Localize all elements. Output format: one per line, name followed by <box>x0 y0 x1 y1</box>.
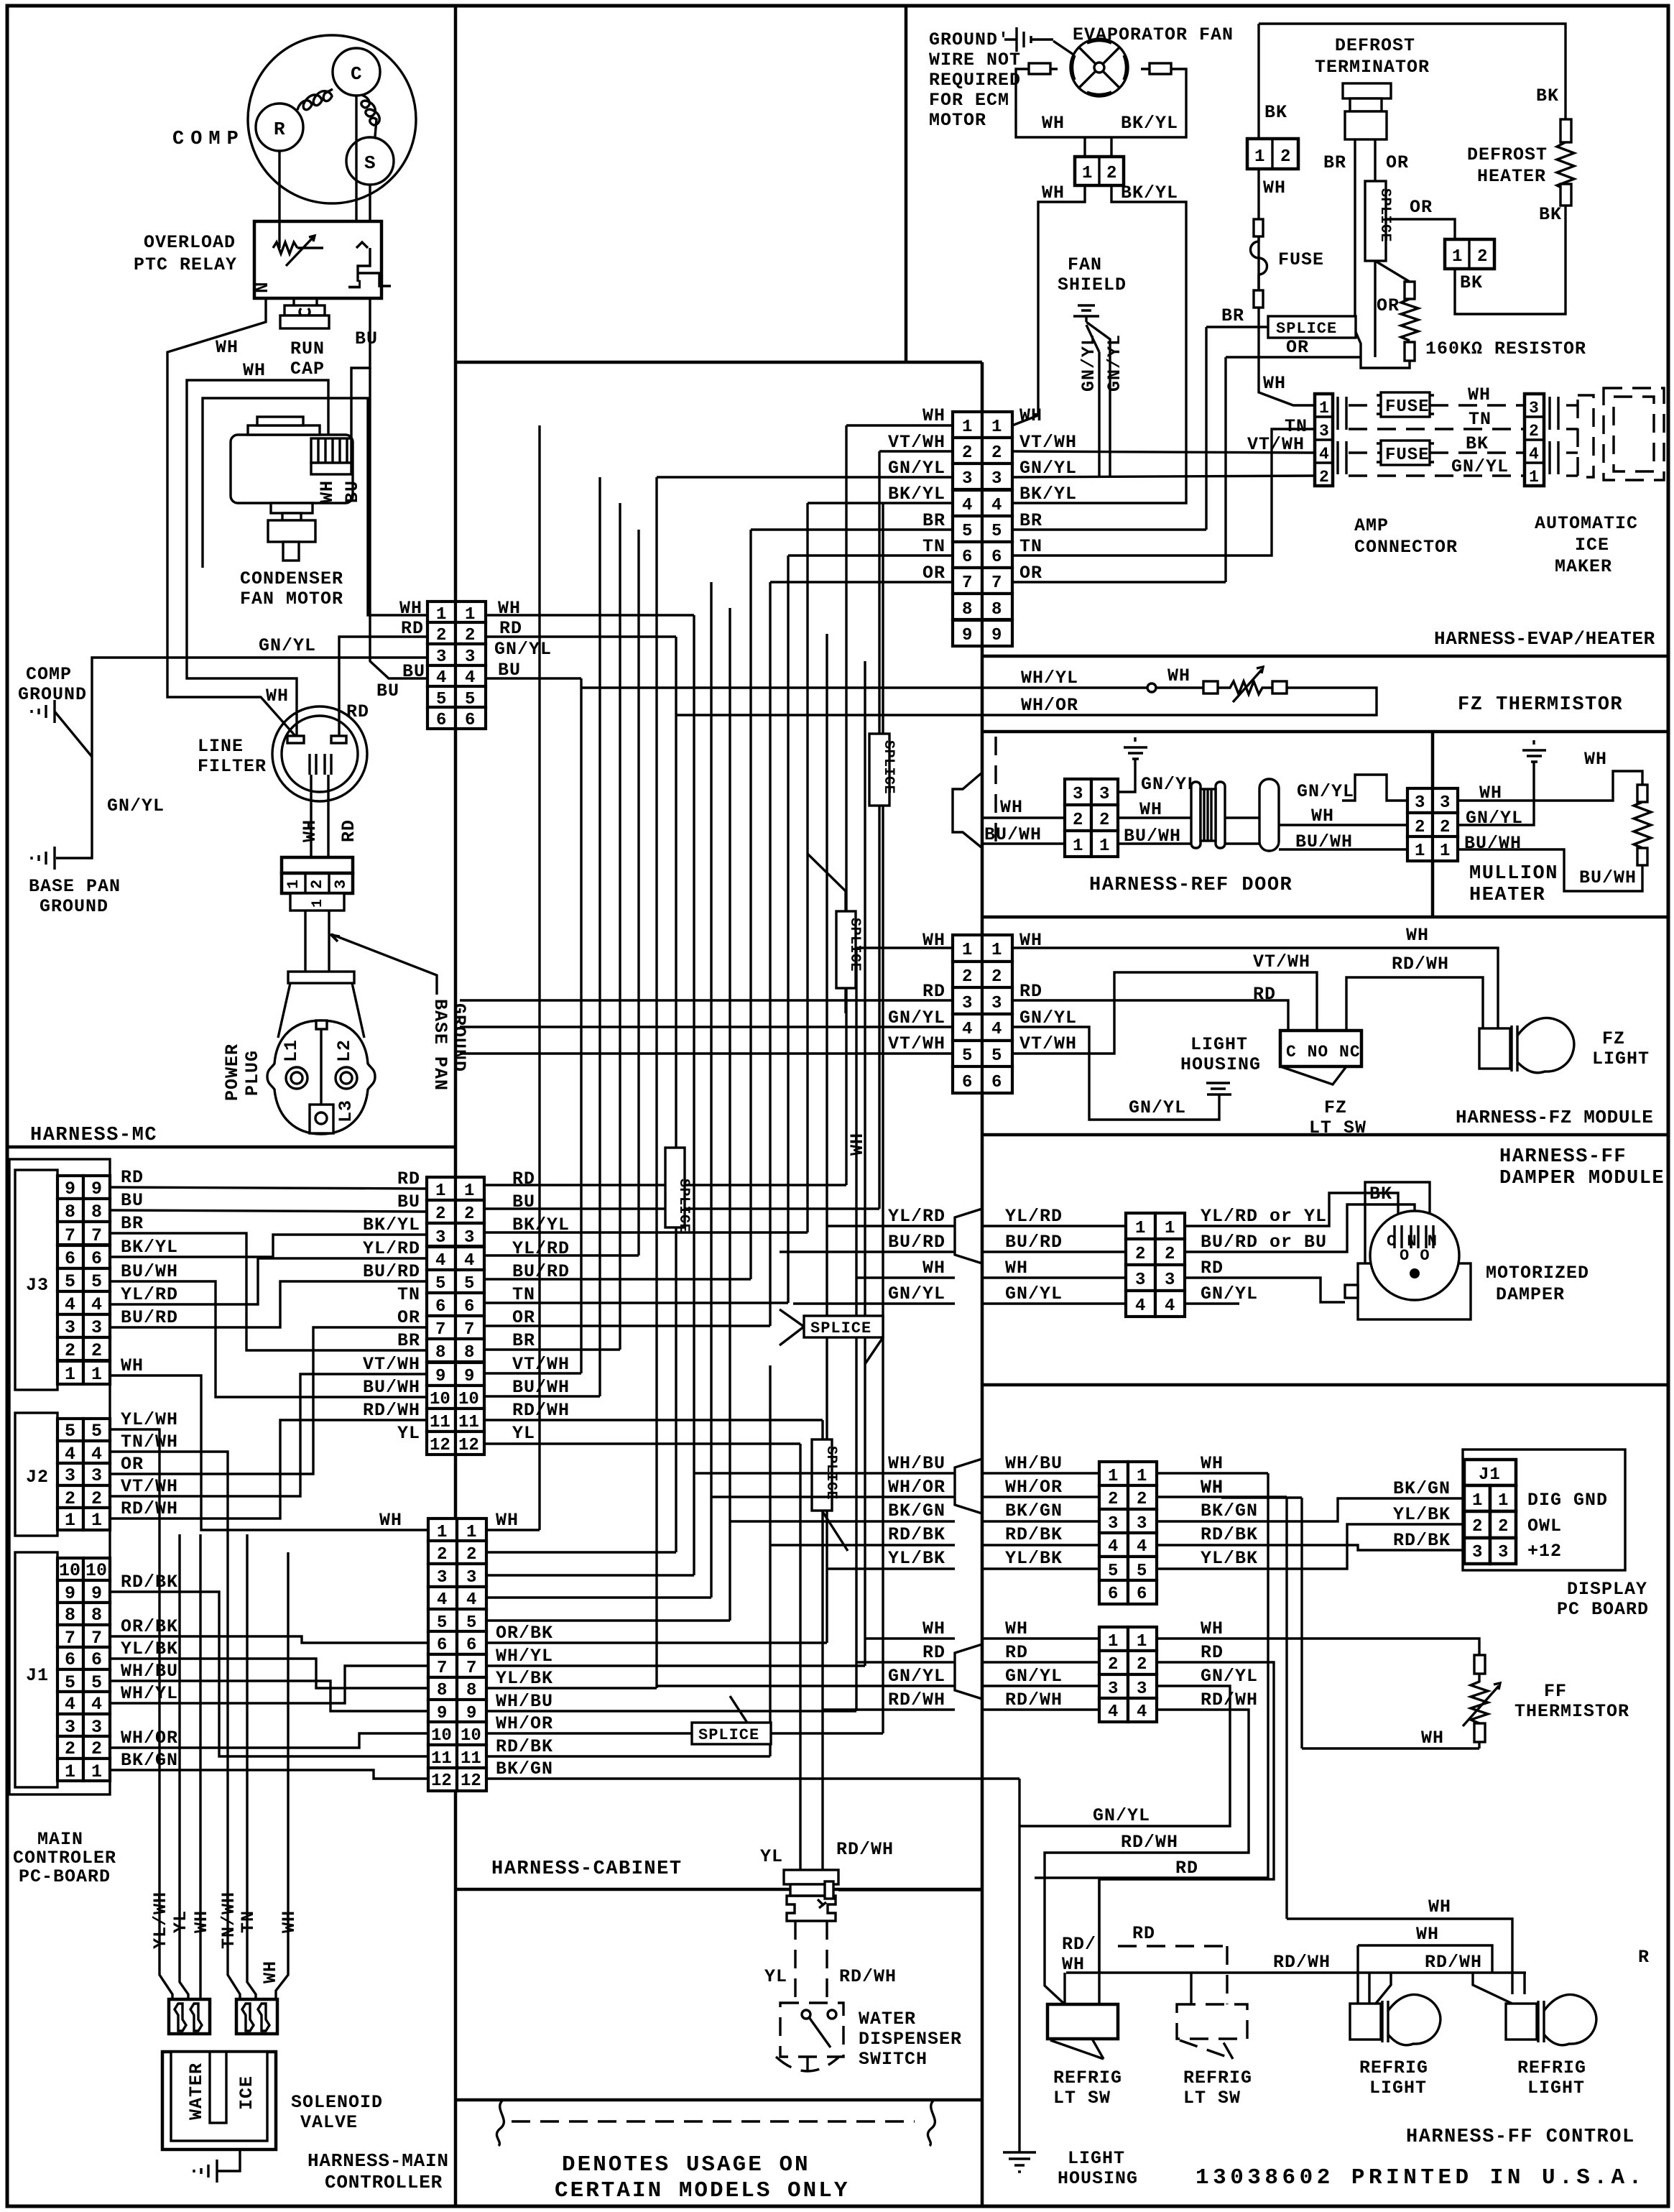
svg-text:BR: BR <box>397 1330 420 1351</box>
svg-text:3: 3 <box>435 1228 445 1248</box>
svg-text:2: 2 <box>91 1738 102 1759</box>
wire heater loop <box>1455 206 1566 314</box>
svg-text:WH/BU: WH/BU <box>888 1453 945 1474</box>
line filter prongs <box>310 754 331 775</box>
svg-text:SPLICE: SPLICE <box>675 1179 692 1232</box>
svg-text:HARNESS-FF CONTROL: HARNESS-FF CONTROL <box>1406 2126 1635 2148</box>
svg-text:FUSE: FUSE <box>1385 397 1430 417</box>
svg-text:1: 1 <box>1319 399 1330 418</box>
splice horizontal box cabinet <box>692 1723 771 1744</box>
svg-text:CONTROLLER: CONTROLLER <box>325 2172 443 2193</box>
svg-text:GN/YL: GN/YL <box>1093 1805 1150 1826</box>
svg-text:GROUND: GROUND <box>18 684 87 705</box>
svg-text:2: 2 <box>65 1738 75 1759</box>
svg-text:OVERLOAD: OVERLOAD <box>144 232 236 253</box>
wires to ref door 3-pin <box>982 818 1065 844</box>
svg-text:J1: J1 <box>26 1665 49 1686</box>
damper prongs <box>1395 1225 1433 1248</box>
terminator wires down <box>1355 139 1375 316</box>
horizontals lower 12-pin right side <box>486 1529 540 1531</box>
svg-text:HARNESS-MC: HARNESS-MC <box>30 1125 157 1146</box>
svg-text:1: 1 <box>1529 468 1540 487</box>
svg-text:WATER: WATER <box>186 2063 207 2120</box>
svg-text:RD/WH: RD/WH <box>512 1400 570 1421</box>
svg-text:TERMINATOR: TERMINATOR <box>1315 57 1430 78</box>
svg-text:9: 9 <box>65 1179 75 1199</box>
harness-ref door bottom divider <box>982 916 1668 919</box>
svg-text:GN/YL: GN/YL <box>1141 774 1198 795</box>
svg-text:BU: BU <box>121 1190 144 1211</box>
wires filter to plug connector <box>311 775 328 857</box>
solenoid plug 2 <box>236 1999 277 2034</box>
svg-text:11: 11 <box>461 1749 481 1769</box>
svg-text:11: 11 <box>431 1749 452 1769</box>
svg-text:4: 4 <box>962 1020 972 1039</box>
svg-text:2: 2 <box>308 880 326 889</box>
svg-text:7: 7 <box>435 1320 445 1340</box>
solenoid ground wire <box>217 2149 240 2171</box>
splice horizontal box mid <box>804 1316 883 1337</box>
svg-text:VT/WH: VT/WH <box>888 432 945 453</box>
switch1 actuator <box>1050 2039 1104 2059</box>
svg-text:YL/BK: YL/BK <box>888 1548 945 1569</box>
wire trunk x=966 <box>693 615 695 1575</box>
svg-text:3: 3 <box>1319 422 1330 441</box>
GN/YL jog wire <box>1342 775 1407 801</box>
wire comp ground diagonal <box>55 711 92 757</box>
svg-text:WH: WH <box>1406 925 1429 946</box>
svg-text:BK/YL: BK/YL <box>121 1237 178 1258</box>
svg-text:GN/YL: GN/YL <box>1451 456 1509 477</box>
svg-text:3: 3 <box>65 1465 75 1486</box>
svg-text:FAN MOTOR: FAN MOTOR <box>240 589 343 609</box>
svg-text:WH/OR: WH/OR <box>496 1713 553 1734</box>
svg-text:BU: BU <box>342 480 363 503</box>
top-right section left border <box>905 6 908 362</box>
svg-text:LIGHT: LIGHT <box>1190 1034 1248 1055</box>
svg-text:1: 1 <box>1135 1219 1145 1238</box>
OR vertical from 9-pin <box>1012 357 1226 582</box>
svg-text:WH: WH <box>1000 797 1023 818</box>
svg-text:WH: WH <box>1263 373 1286 394</box>
splice vertical box topright <box>1365 181 1386 261</box>
svg-text:WH: WH <box>1311 806 1334 826</box>
svg-text:GN/YL: GN/YL <box>1201 1284 1258 1304</box>
svg-text:BK: BK <box>1466 433 1489 454</box>
svg-text:12: 12 <box>461 1771 481 1791</box>
fz thermistor bottom divider <box>982 730 1668 734</box>
connector P-DAMPER 4-pin <box>1126 1213 1155 1239</box>
svg-text:1: 1 <box>1137 1632 1147 1651</box>
svg-text:2: 2 <box>1137 1655 1147 1674</box>
mid wires display <box>982 1473 1099 1569</box>
dashed RD jumper <box>1118 1945 1227 1947</box>
svg-text:2: 2 <box>1108 1490 1118 1509</box>
svg-text:4: 4 <box>91 1694 102 1715</box>
svg-text:1: 1 <box>310 899 326 908</box>
svg-text:TN: TN <box>1469 409 1492 430</box>
mid wires ffctrl <box>982 1639 1099 1710</box>
notes squiggle break left <box>496 2100 504 2146</box>
svg-text:8: 8 <box>65 1605 75 1626</box>
ref door / mullion divider <box>1431 732 1435 917</box>
svg-text:TN: TN <box>397 1284 420 1305</box>
svg-text:7: 7 <box>991 573 1002 593</box>
svg-text:BASE PAN: BASE PAN <box>29 876 121 897</box>
fan shield ground <box>1073 305 1110 477</box>
wire trunk x=1072 <box>769 582 771 1326</box>
svg-text:7: 7 <box>464 1320 474 1340</box>
svg-text:GN/YL: GN/YL <box>1019 1008 1077 1028</box>
svg-text:FOR ECM: FOR ECM <box>929 90 1009 111</box>
GN/YL ground wire <box>1018 1779 1020 2152</box>
svg-text:1: 1 <box>91 1510 102 1531</box>
svg-text:GN/YL: GN/YL <box>1129 1097 1186 1118</box>
connector lower stub <box>290 893 344 911</box>
svg-text:VT/WH: VT/WH <box>363 1354 420 1375</box>
svg-text:GN/YL: GN/YL <box>1297 781 1354 802</box>
svg-text:4: 4 <box>437 1590 447 1610</box>
wire trunk x=863 <box>619 503 621 1350</box>
wire TN from 9-pin <box>1012 429 1315 556</box>
svg-text:PC-BOARD: PC-BOARD <box>19 1866 111 1887</box>
splice mid diagonals <box>780 1309 883 1364</box>
fuse lead wire <box>1259 169 1315 405</box>
svg-text:10: 10 <box>59 1560 80 1581</box>
svg-text:WH: WH <box>847 1133 868 1156</box>
svg-text:YL/BK: YL/BK <box>1393 1504 1451 1525</box>
fan lead bead left <box>1029 63 1050 74</box>
WH trunks down right <box>1035 1473 1268 1878</box>
svg-text:WH: WH <box>922 1258 945 1278</box>
connector J2 <box>57 1419 83 1441</box>
left feed wires ffctrl <box>657 1639 955 1710</box>
svg-text:3: 3 <box>1137 1679 1147 1699</box>
line filter right pin <box>331 736 346 743</box>
svg-text:HARNESS-CABINET: HARNESS-CABINET <box>491 1858 683 1880</box>
svg-text:WH: WH <box>216 337 239 358</box>
terminal S <box>346 137 394 185</box>
svg-text:12: 12 <box>431 1771 452 1791</box>
svg-text:YL/RD or YL: YL/RD or YL <box>1201 1206 1327 1227</box>
svg-text:RD/WH: RD/WH <box>1273 1952 1331 1973</box>
svg-text:1: 1 <box>1440 842 1450 861</box>
start winding coil C-S <box>361 95 379 137</box>
splice to resistor diagonal <box>1375 261 1410 282</box>
svg-text:OWL: OWL <box>1527 1516 1562 1536</box>
svg-text:CERTAIN MODELS ONLY: CERTAIN MODELS ONLY <box>555 2178 849 2203</box>
svg-text:BR: BR <box>922 510 945 531</box>
svg-text:2: 2 <box>1135 1245 1145 1264</box>
svg-text:VALVE: VALVE <box>300 2112 358 2133</box>
power cord connector 1 2 3 <box>282 857 353 873</box>
wire RD pin2 to line filter <box>339 637 427 737</box>
svg-text:BU/WH: BU/WH <box>1579 867 1637 888</box>
splice BR right link <box>1356 332 1361 357</box>
svg-text:1: 1 <box>1108 1467 1118 1486</box>
mullion ground <box>1458 740 1546 825</box>
middle/right divider trunk <box>981 362 984 2206</box>
svg-text:10: 10 <box>431 1726 452 1746</box>
svg-text:YL/BK: YL/BK <box>121 1639 178 1659</box>
relay internal overload switch <box>356 242 391 286</box>
svg-text:HEATER: HEATER <box>1469 885 1545 906</box>
svg-text:ICE: ICE <box>236 2075 257 2110</box>
solenoid ground symbol <box>194 2160 217 2183</box>
icemaker connector dashes <box>1566 404 1578 406</box>
notes dashed line <box>512 2120 915 2122</box>
svg-text:3: 3 <box>1498 1543 1509 1562</box>
WH wire bulb2 <box>1287 1919 1512 1994</box>
svg-text:2: 2 <box>962 443 972 463</box>
svg-text:RD/WH: RD/WH <box>1005 1690 1063 1710</box>
svg-text:2: 2 <box>65 1488 75 1509</box>
svg-text:WH/BU: WH/BU <box>496 1691 553 1712</box>
mullion heater zigzag <box>1634 802 1651 848</box>
WH wire to mullion heater <box>1458 771 1642 801</box>
wire GN/YL straight <box>1012 476 1315 477</box>
left feed wires damper <box>780 1226 955 1304</box>
cable clamp ffctrl <box>955 1644 982 1699</box>
160K resistor zigzag <box>1401 299 1418 341</box>
svg-text:RD/: RD/ <box>1062 1934 1096 1955</box>
svg-text:LT SW: LT SW <box>1183 2088 1241 2109</box>
svg-text:OR: OR <box>1019 563 1042 584</box>
FF thermistor zigzag <box>1471 1674 1488 1723</box>
svg-text:1: 1 <box>1472 1491 1483 1511</box>
fuse bead bottom <box>1254 290 1263 308</box>
svg-text:COMP: COMP <box>172 129 245 150</box>
svg-text:9: 9 <box>65 1583 75 1604</box>
ground slot <box>310 1105 333 1133</box>
svg-text:2: 2 <box>1073 811 1083 830</box>
svg-text:RD: RD <box>121 1167 144 1188</box>
svg-text:2: 2 <box>1477 247 1488 267</box>
amp connector right strip <box>1525 394 1544 486</box>
svg-text:1: 1 <box>1165 1219 1175 1238</box>
svg-text:BK: BK <box>1369 1184 1392 1204</box>
svg-text:HARNESS-MAIN: HARNESS-MAIN <box>307 2150 449 2172</box>
defrost heater connector 1 2 <box>1445 239 1494 269</box>
svg-text:2: 2 <box>437 1545 447 1564</box>
mating bars right <box>1550 397 1558 474</box>
svg-text:BR: BR <box>121 1213 144 1234</box>
FF thermistor return loop <box>1221 1498 1479 1748</box>
right wires FZ 6-pin <box>1012 948 1498 1036</box>
svg-text:6: 6 <box>991 548 1002 567</box>
heater resistor zigzag <box>1557 142 1574 190</box>
svg-text:WH: WH <box>496 1510 519 1531</box>
wire trunk x=1192 <box>855 948 857 1711</box>
motor grill hatched box <box>311 438 351 463</box>
svg-text:R: R <box>1638 1947 1650 1968</box>
left fused circuit connector 1 2 <box>1247 139 1298 169</box>
run cap leads <box>294 298 317 308</box>
motor stem <box>283 542 299 561</box>
svg-text:MAKER: MAKER <box>1555 556 1612 577</box>
svg-text:+12: +12 <box>1527 1541 1562 1562</box>
svg-text:DENOTES USAGE ON: DENOTES USAGE ON <box>562 2152 810 2178</box>
svg-text:1: 1 <box>1254 147 1265 167</box>
svg-text:OR: OR <box>397 1307 420 1328</box>
svg-text:9: 9 <box>991 626 1002 645</box>
svg-text:8: 8 <box>91 1202 102 1222</box>
svg-text:5: 5 <box>991 1046 1002 1066</box>
svg-text:WH: WH <box>1201 1618 1224 1639</box>
svg-text:LT SW: LT SW <box>1053 2088 1111 2109</box>
svg-text:4: 4 <box>1137 1537 1147 1557</box>
svg-text:2: 2 <box>1319 468 1330 487</box>
svg-text:2: 2 <box>1472 1517 1483 1536</box>
dashed wires to fuses <box>1349 404 1381 406</box>
svg-text:RD: RD <box>401 618 424 639</box>
svg-text:N: N <box>251 282 273 293</box>
wire trunk x=809 <box>580 678 582 1373</box>
svg-text:4: 4 <box>464 1251 474 1271</box>
svg-text:4: 4 <box>1319 445 1330 464</box>
leader to fan <box>1031 40 1086 63</box>
wire C to relay <box>355 96 357 221</box>
svg-text:SPLICE: SPLICE <box>880 740 897 794</box>
svg-text:10: 10 <box>430 1390 450 1409</box>
svg-text:SPLICE: SPLICE <box>1276 320 1337 338</box>
BR net from 9-pin <box>1012 327 1268 530</box>
svg-text:2: 2 <box>1280 147 1291 167</box>
wires coil to pill <box>1225 818 1259 844</box>
svg-text:OR: OR <box>1286 337 1309 358</box>
svg-text:2: 2 <box>1529 422 1540 441</box>
plug keyway <box>316 1020 327 1029</box>
left feed wires display <box>694 1473 955 1569</box>
svg-text:WH: WH <box>1042 113 1065 134</box>
svg-text:5: 5 <box>91 1271 102 1292</box>
svg-text:FAN: FAN <box>1068 254 1102 275</box>
svg-text:DISPENSER: DISPENSER <box>859 2029 962 2050</box>
svg-text:COMP: COMP <box>26 664 72 685</box>
svg-text:TN: TN <box>1019 536 1042 557</box>
switch lever <box>809 2017 831 2047</box>
RD/WH wire to bulb <box>1346 977 1483 1036</box>
svg-text:YL/RD: YL/RD <box>888 1206 945 1227</box>
svg-text:GN/YL: GN/YL <box>107 796 165 816</box>
motor top cap <box>248 425 320 435</box>
svg-text:VT/WH: VT/WH <box>512 1354 570 1375</box>
svg-text:GN/YL: GN/YL <box>494 639 552 660</box>
svg-text:CONDENSER: CONDENSER <box>240 568 343 589</box>
thermistor variable resistor <box>1218 681 1274 694</box>
svg-text:9: 9 <box>962 626 972 645</box>
svg-text:VT/WH: VT/WH <box>121 1476 178 1497</box>
svg-text:WH/YL: WH/YL <box>1021 668 1078 688</box>
svg-text:BU/RD: BU/RD <box>1005 1232 1063 1253</box>
svg-text:LIGHT: LIGHT <box>1527 2078 1585 2098</box>
svg-text:7: 7 <box>65 1628 75 1649</box>
svg-text:2: 2 <box>1498 1517 1509 1536</box>
svg-text:WH: WH <box>121 1355 144 1376</box>
svg-text:5: 5 <box>1108 1562 1118 1581</box>
wire top left vertical <box>1257 24 1259 139</box>
right wires damper to motor <box>1185 1193 1398 1226</box>
svg-text:3: 3 <box>464 1228 474 1248</box>
svg-text:3: 3 <box>1440 793 1450 813</box>
harness-cabinet bottom divider <box>456 1888 982 1891</box>
svg-text:L: L <box>345 279 366 290</box>
svg-text:DAMPER: DAMPER <box>1496 1284 1565 1305</box>
wire BK/YL fan to 9-pin r4 <box>1012 185 1186 503</box>
svg-text:9: 9 <box>435 1367 445 1386</box>
svg-text:3: 3 <box>91 1465 102 1486</box>
relay internal resistor with arrow <box>273 221 323 266</box>
svg-text:BU: BU <box>355 328 378 349</box>
right wires display to J1 <box>1157 1473 1287 1497</box>
damper center dot <box>1410 1268 1420 1278</box>
svg-text:WH: WH <box>191 1910 212 1933</box>
svg-text:YL/WH: YL/WH <box>121 1409 178 1430</box>
svg-text:8: 8 <box>466 1681 476 1700</box>
light housing ground symbol <box>1003 2152 1036 2172</box>
svg-text:1: 1 <box>1099 837 1109 856</box>
svg-text:HOUSING: HOUSING <box>1058 2168 1138 2189</box>
svg-text:5: 5 <box>65 1421 75 1442</box>
svg-text:VT/WH: VT/WH <box>888 1033 945 1054</box>
prong L1 circles <box>286 1067 307 1089</box>
svg-text:8: 8 <box>435 1343 445 1363</box>
wire YL to water dispenser <box>799 1868 801 1871</box>
svg-text:WH/YL: WH/YL <box>121 1683 178 1704</box>
svg-text:WH: WH <box>379 1510 402 1531</box>
wire trunk x=1114 <box>799 1444 801 1870</box>
svg-text:BK/GN: BK/GN <box>1393 1478 1451 1499</box>
svg-text:RD: RD <box>1201 1642 1224 1663</box>
horizontals evap 9-pin left feeds <box>846 424 953 426</box>
cable clamp display <box>955 1459 982 1513</box>
wires 3-pin to door coil <box>1118 818 1193 844</box>
solenoid plug 1 <box>169 1999 210 2034</box>
svg-text:BR: BR <box>1019 510 1042 531</box>
wire trunk x=1016 <box>729 608 731 1621</box>
svg-text:BK/YL: BK/YL <box>888 484 945 504</box>
svg-text:LIGHT: LIGHT <box>1369 2078 1427 2098</box>
svg-text:6: 6 <box>962 1073 972 1092</box>
splice vertical box refdoor <box>869 734 889 806</box>
svg-text:BK/GN: BK/GN <box>1005 1501 1063 1521</box>
wire trunk x=751 <box>538 425 540 1530</box>
svg-text:WH: WH <box>1005 1618 1028 1639</box>
note ground symbol <box>1017 27 1031 52</box>
svg-text:WH: WH <box>1584 749 1607 770</box>
mullion heater bead bottom <box>1637 848 1647 865</box>
water dispenser switch dashed box <box>780 2003 843 2057</box>
svg-text:4: 4 <box>65 1694 75 1715</box>
splice horizontal box BR <box>1268 316 1356 338</box>
svg-text:CONTROLER: CONTROLER <box>13 1848 116 1868</box>
wire WH motor loop to line filter <box>187 380 328 736</box>
connector P-DISPLAY 6-pin <box>1099 1462 1128 1485</box>
FUSE box row3 <box>1381 441 1430 465</box>
svg-text:8: 8 <box>65 1202 75 1222</box>
svg-text:WH: WH <box>922 405 945 426</box>
svg-text:2: 2 <box>1106 164 1117 183</box>
svg-text:10: 10 <box>461 1726 481 1746</box>
svg-text:GN/YL: GN/YL <box>888 1666 945 1687</box>
wire WH/YL thermistor crossing <box>581 686 982 688</box>
svg-text:RD/BK: RD/BK <box>1005 1524 1063 1545</box>
wire BU branch to 6-pin pin 4 <box>370 368 427 678</box>
BU/WH return wire <box>1458 849 1642 891</box>
svg-text:DISPLAY: DISPLAY <box>1567 1579 1647 1600</box>
svg-text:2: 2 <box>65 1340 75 1361</box>
6-pin MC right side feeds <box>486 614 694 616</box>
